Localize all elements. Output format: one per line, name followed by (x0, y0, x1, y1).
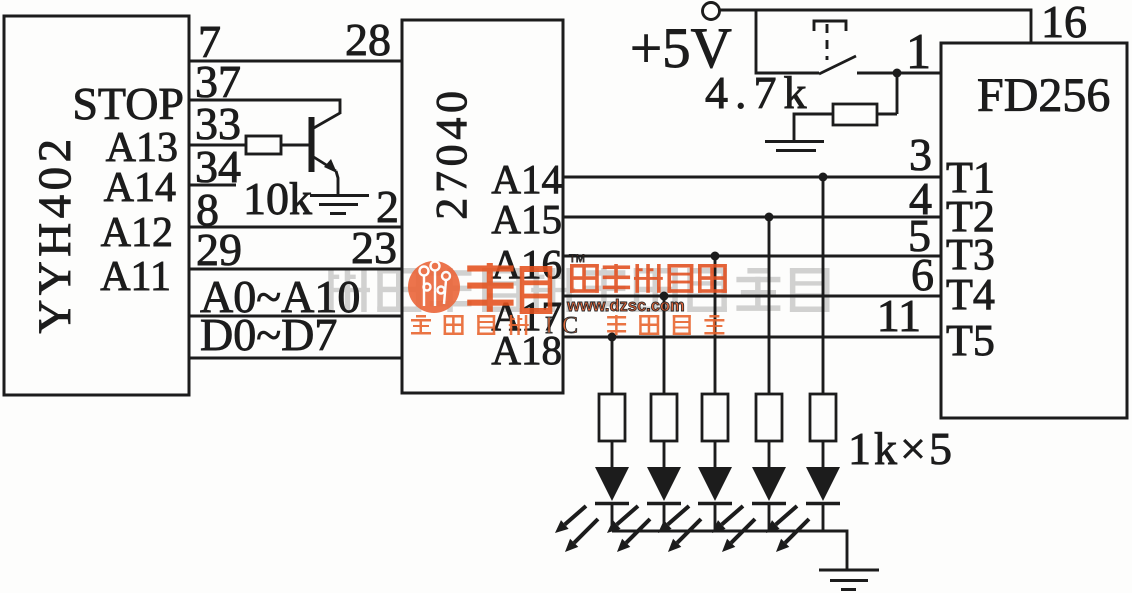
wire LED D1 cathode down to bus (611, 503, 614, 531)
svg-text:A11: A11 (100, 254, 171, 300)
wire U1 pin33 to resistor R6 (189, 144, 246, 147)
LED D2 anode triangle (647, 467, 681, 501)
wire LED D4 cathode down to bus (768, 503, 771, 531)
wire LED D5 cathode down to bus (822, 503, 825, 531)
resistor R1 body (599, 394, 625, 441)
switch S1 button actuator (814, 21, 846, 31)
LED D4 anode triangle (752, 467, 786, 501)
LED D3 light arrows (658, 506, 701, 552)
resistor R7 4.7k body (833, 104, 877, 125)
svg-text:A12: A12 (101, 210, 173, 256)
LED D1 light arrows (555, 506, 598, 552)
wire U2 A16 to U3 T3 (563, 255, 941, 258)
svg-text:4.7k: 4.7k (705, 67, 814, 118)
wire Q1 emitter to ground (336, 171, 338, 196)
LED D2 cathode bar (647, 502, 681, 505)
resistor R5 body (810, 394, 836, 441)
wire tap down to resistor R5 (822, 177, 825, 394)
LED D3 anode triangle (698, 467, 732, 501)
junction node on T2 wire (765, 213, 774, 222)
svg-text:1: 1 (906, 23, 931, 79)
ground for R7 (765, 142, 824, 151)
wire U2 A14 to U3 T1 (563, 176, 941, 179)
wire +5V to switch (756, 10, 819, 73)
svg-text:T4: T4 (946, 270, 995, 319)
junction node on T1 wire (819, 173, 828, 182)
junction node on T3 wire (711, 252, 720, 261)
bus D0~D7 divider wire (189, 357, 402, 360)
LED D5 cathode bar (806, 502, 840, 505)
wire tap down to resistor R3 (714, 256, 717, 394)
svg-text:D0~D7: D0~D7 (200, 309, 337, 360)
wire junction down to R7 (896, 73, 899, 114)
transistor Q1 (312, 113, 341, 172)
svg-text:11: 11 (877, 290, 921, 341)
ground for LED bus (819, 570, 879, 590)
LED D4 light arrows (712, 506, 755, 552)
wire tap down to resistor R4 (768, 217, 771, 394)
svg-text:YYH402: YYH402 (29, 134, 81, 333)
watermark slogan row (411, 315, 724, 335)
transistor Q1 emitter arrow (324, 159, 337, 173)
resistor R2 body (651, 394, 677, 441)
cathode bus wire (612, 531, 847, 570)
wire U2 A17 to U3 T4 (563, 295, 941, 298)
resistor R3 body (702, 394, 728, 441)
wire +5V to FD256 pin16 (720, 10, 1031, 43)
watermark logo circle (408, 261, 460, 313)
svg-text:STOP: STOP (72, 78, 184, 129)
switch S1 blade (819, 56, 856, 74)
wire R3 to LED D3 (714, 441, 717, 467)
resistor R4 body (756, 394, 782, 441)
watermark grey company text (326, 268, 830, 312)
LED D5 light arrows (766, 506, 809, 552)
wire R5 to LED D5 (822, 441, 825, 467)
wire LED D3 cathode down to bus (714, 503, 717, 531)
wire R1 to LED D1 (611, 441, 614, 467)
ground for Q1 emitter (310, 196, 369, 214)
svg-text:A15: A15 (491, 196, 562, 242)
svg-text:A14: A14 (104, 165, 176, 211)
junction node on T4 wire (660, 292, 669, 301)
wire R4 to LED D4 (768, 441, 771, 467)
wire tap down to resistor R2 (663, 296, 666, 394)
wire U1 pin29 to U2 pin23 (189, 268, 402, 271)
wire U2 A18 to U3 T5 (563, 336, 941, 339)
wire stub U1 pin34 (189, 184, 236, 187)
svg-text:28: 28 (345, 14, 391, 65)
wire tap down to resistor R1 (611, 337, 614, 394)
svg-text:IC: IC (545, 313, 587, 339)
LED D4 cathode bar (752, 502, 786, 505)
wire R2 to LED D2 (663, 441, 666, 467)
LED D2 light arrows (607, 506, 650, 552)
wire U2 A15 to U3 T2 (563, 216, 941, 219)
svg-text:TM: TM (569, 253, 585, 265)
resistor R6 10k body (246, 136, 281, 154)
wire R7 right lead (877, 113, 897, 116)
wire R6 to Q1 base (281, 144, 309, 147)
wire U1 pin37 to transistor collector (189, 100, 340, 114)
wire switch to FD256 pin1 (857, 72, 941, 75)
LED D1 cathode bar (595, 502, 629, 505)
switch S1 actuator dashed stem (826, 24, 829, 60)
svg-text:16: 16 (1041, 0, 1087, 47)
IC U3 FD256 box (941, 43, 1127, 418)
watermark site name glyphs (570, 264, 727, 293)
LED D5 anode triangle (806, 467, 840, 501)
+5V terminal (703, 3, 720, 20)
wire LED D2 cathode down to bus (663, 503, 666, 531)
svg-text:T5: T5 (946, 316, 995, 365)
svg-text:FD256: FD256 (977, 69, 1110, 122)
wire U1 pin8 to U2 pin2 (189, 226, 402, 229)
wire R7 left lead to ground (794, 114, 833, 141)
bus A0~A10 divider wire (189, 315, 402, 318)
LED D1 anode triangle (595, 467, 629, 501)
svg-text:27040: 27040 (427, 86, 476, 220)
junction node pin1 wire (893, 69, 902, 78)
svg-text:10k: 10k (243, 173, 312, 224)
IC U1 YYH402 box (4, 16, 189, 395)
svg-text:23: 23 (351, 222, 397, 273)
LED D3 cathode bar (698, 502, 732, 505)
wire U1 pin7 to U2 pin28 (189, 60, 402, 63)
junction node on T5 wire (608, 333, 617, 342)
watermark brand glyphs (467, 263, 552, 314)
svg-text:1k×5: 1k×5 (848, 423, 955, 474)
svg-text:29: 29 (196, 224, 242, 275)
IC U2 27040 box (402, 20, 563, 393)
